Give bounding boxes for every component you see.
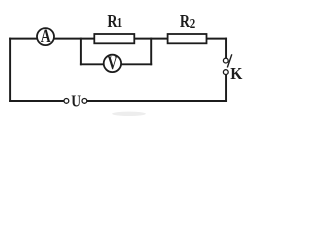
label R2 (180, 12, 195, 31)
wire: bottom-right segment from U right terminal to right corner (87, 100, 226, 102)
label R1 (107, 12, 122, 31)
switch K (223, 54, 231, 74)
resistor R1 (94, 34, 134, 43)
svg-text:R: R (180, 12, 190, 31)
battery terminal right (node circle) (82, 99, 87, 104)
faint smudge artifact below bottom wire (112, 112, 146, 116)
wire: left vertical side (9, 39, 11, 101)
svg-text:A: A (41, 26, 51, 46)
voltmeter V (104, 52, 121, 73)
wire: voltmeter branch right vertical (150, 39, 152, 65)
wire: voltmeter branch left vertical (80, 39, 82, 65)
svg-text:K: K (230, 64, 242, 84)
wire: ammeter to R1 (through left parallel node) (54, 38, 94, 40)
wire: top-right segment from R2 to right corner (207, 38, 227, 40)
ammeter A (37, 26, 54, 46)
wire: right vertical above switch (225, 39, 227, 58)
wire: top-left segment from left corner to ammeter (10, 38, 37, 40)
wire: between R1 and R2 (through right parallel node) (134, 38, 167, 40)
wire: bottom-left segment to U left terminal (10, 100, 64, 102)
resistor R2 (168, 34, 207, 43)
wire: voltmeter branch left horizontal (81, 63, 104, 65)
label U (source voltage) (71, 92, 81, 111)
svg-text:U: U (71, 92, 81, 111)
svg-text:V: V (108, 52, 118, 73)
battery terminal left (node circle) (64, 99, 69, 104)
svg-text:1: 1 (117, 15, 122, 31)
wire: right vertical below switch (225, 75, 227, 101)
wire: voltmeter branch right horizontal (121, 63, 151, 65)
label K (230, 64, 242, 84)
svg-text:2: 2 (190, 16, 195, 32)
